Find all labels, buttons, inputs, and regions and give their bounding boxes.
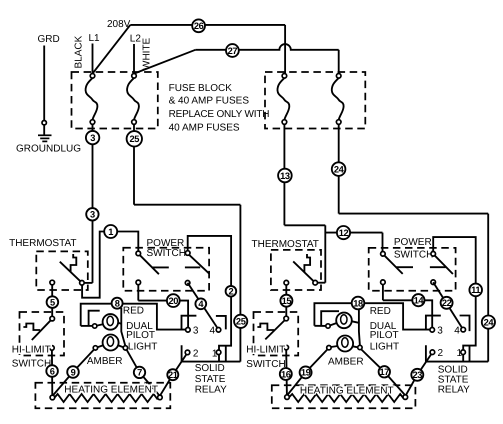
svg-text:8: 8 bbox=[115, 299, 120, 309]
svg-text:12: 12 bbox=[339, 228, 349, 238]
svg-text:24: 24 bbox=[484, 317, 495, 327]
svg-text:6: 6 bbox=[50, 366, 55, 376]
node 27 bbox=[226, 44, 239, 57]
wire diagonal right amber to element via node 19 bbox=[287, 350, 327, 396]
svg-text:FUSE BLOCK: FUSE BLOCK bbox=[169, 83, 233, 94]
pilot lamp AMBER left bbox=[103, 335, 119, 351]
svg-text:16: 16 bbox=[281, 369, 291, 379]
relay left terminal 2 bbox=[185, 350, 190, 355]
wire second feed horizontal with hop over vertical bbox=[195, 44, 338, 50]
thermostat left (dashed box) bbox=[36, 251, 88, 290]
svg-text:SOLID: SOLID bbox=[195, 363, 225, 374]
wire right pole1 bottom drop bbox=[382, 284, 384, 300]
svg-text:PILOT: PILOT bbox=[126, 330, 155, 341]
node 17 bbox=[379, 366, 390, 377]
wire to right thermostat right terminal bbox=[317, 282, 326, 284]
wire 24 horizontal bbox=[339, 213, 489, 215]
wire down to right thermostat bbox=[324, 225, 326, 282]
node 4 bbox=[195, 298, 206, 309]
svg-text:2: 2 bbox=[438, 348, 444, 359]
wire to thermostat right terminal bbox=[84, 282, 93, 284]
wire lamp right riser left bbox=[121, 308, 125, 346]
svg-text:1: 1 bbox=[108, 227, 113, 237]
heating element left zigzag bbox=[55, 394, 158, 402]
svg-text:POWER: POWER bbox=[394, 237, 432, 248]
wire node 12 horizontal bbox=[325, 232, 382, 234]
svg-text:HI-LIMIT: HI-LIMIT bbox=[246, 344, 285, 355]
node 24 upper bbox=[332, 162, 346, 176]
node 1 bbox=[104, 225, 117, 238]
wire node 1 loop from thermostat terminal bbox=[82, 232, 138, 298]
svg-text:REPLACE ONLY WITH: REPLACE ONLY WITH bbox=[169, 109, 270, 120]
fuse F3 bbox=[277, 78, 289, 120]
node 3 upper bbox=[86, 131, 99, 144]
svg-text:25: 25 bbox=[130, 134, 140, 144]
ground symbol bbox=[38, 135, 52, 141]
node 26 bbox=[192, 19, 205, 32]
pilot lamp RED right bbox=[336, 313, 352, 329]
wire L2 diagonal bbox=[134, 50, 195, 74]
wire pole1 bottom drop bbox=[137, 285, 139, 301]
wire 25 to relay bottom bbox=[182, 361, 241, 363]
wire node 11 run from right pole2 top bbox=[433, 237, 476, 350]
svg-text:LIGHT: LIGHT bbox=[128, 342, 157, 353]
fuse block left (dashed box) bbox=[72, 72, 158, 129]
svg-text:1: 1 bbox=[457, 348, 463, 359]
wire right relay2 diagonal to element via node 23 bbox=[406, 355, 432, 396]
relay right terminal 3 bbox=[430, 328, 435, 333]
svg-text:HEATING ELEMENT: HEATING ELEMENT bbox=[64, 384, 158, 395]
node 2 bbox=[226, 286, 237, 297]
svg-text:9: 9 bbox=[71, 367, 76, 377]
svg-text:WHITE: WHITE bbox=[142, 37, 153, 70]
wire node 8 horizontal with corners bbox=[81, 304, 186, 330]
svg-text:23: 23 bbox=[413, 370, 423, 380]
svg-text:SWITCH: SWITCH bbox=[246, 359, 285, 370]
node 24 lower bbox=[482, 316, 495, 329]
svg-text:AMBER: AMBER bbox=[328, 357, 364, 368]
thermostat right switch bbox=[293, 261, 315, 282]
node 12 bbox=[337, 226, 350, 239]
node 7 bbox=[134, 367, 145, 378]
wire hi-limit to element via node 6 bbox=[51, 350, 53, 395]
fuse F1 bbox=[86, 78, 98, 120]
svg-text:27: 27 bbox=[228, 46, 238, 56]
svg-text:RED: RED bbox=[370, 306, 391, 317]
svg-text:18: 18 bbox=[353, 298, 363, 308]
wire fuse F1 to node 3 run bbox=[92, 124, 94, 283]
wire lug to ground bbox=[43, 125, 45, 135]
node 22 bbox=[441, 297, 453, 309]
wire top feed down to right fuse bbox=[284, 25, 286, 74]
svg-text:SWITCH: SWITCH bbox=[394, 250, 433, 261]
power switch right pole 2 bbox=[434, 255, 453, 274]
relay left terminal 1 bbox=[218, 355, 220, 362]
power switch left (dashed box) bbox=[123, 248, 209, 291]
svg-text:SWITCH: SWITCH bbox=[12, 359, 51, 370]
power switch left pole 1 bbox=[140, 255, 159, 274]
svg-text:L2: L2 bbox=[130, 34, 142, 45]
wire pole2 bottom diagonal to relay terminal 4 bbox=[188, 283, 219, 330]
node 8 bbox=[112, 298, 123, 309]
node 19 bbox=[300, 366, 312, 378]
svg-text:5: 5 bbox=[50, 297, 55, 307]
svg-text:GRD: GRD bbox=[38, 34, 60, 45]
svg-text:3: 3 bbox=[193, 326, 199, 337]
node 15 bbox=[280, 295, 292, 307]
svg-text:22: 22 bbox=[442, 298, 452, 308]
wire 13 horizontal bbox=[284, 224, 325, 226]
fuse block right (dashed box) bbox=[265, 72, 365, 129]
wire GRD drop bbox=[43, 46, 45, 121]
relay left terminal 3 bbox=[186, 328, 191, 333]
svg-text:14: 14 bbox=[414, 296, 425, 306]
svg-text:11: 11 bbox=[471, 285, 480, 295]
svg-text:RED: RED bbox=[123, 305, 144, 316]
relay right outline brackets bbox=[426, 316, 470, 362]
hi-limit right blade bbox=[265, 320, 285, 339]
wire thermostat left terminal to node 5 bbox=[51, 285, 53, 317]
node 14 bbox=[412, 294, 424, 306]
hi-limit switch left (dashed box) bbox=[20, 312, 65, 356]
svg-text:24: 24 bbox=[334, 164, 345, 174]
fuse F4 bbox=[332, 78, 344, 120]
svg-text:SWITCH: SWITCH bbox=[147, 248, 186, 259]
wire node 18 horizontal with corners bbox=[314, 303, 430, 329]
svg-text:4: 4 bbox=[454, 325, 460, 336]
relay right terminal 2 bbox=[430, 350, 435, 355]
svg-text:HEATING ELEMENT: HEATING ELEMENT bbox=[300, 386, 394, 397]
svg-text:STATE: STATE bbox=[195, 374, 226, 385]
wire node 14 horizontal to right relay terminal 3 bbox=[383, 300, 432, 327]
svg-text:25: 25 bbox=[236, 317, 246, 327]
svg-text:THERMOSTAT: THERMOSTAT bbox=[252, 239, 319, 250]
wire right thermostat left terminal to node 15 bbox=[285, 285, 287, 316]
svg-text:7: 7 bbox=[137, 368, 142, 378]
node 13 bbox=[278, 169, 292, 183]
svg-text:GROUNDLUG: GROUNDLUG bbox=[16, 143, 81, 154]
wire 24 vertical drop bbox=[487, 214, 489, 362]
svg-text:4: 4 bbox=[210, 326, 216, 337]
power switch right pole 1 bbox=[384, 255, 403, 274]
svg-text:AMBER: AMBER bbox=[87, 356, 123, 367]
svg-text:17: 17 bbox=[380, 367, 390, 377]
pilot lamp RED left bbox=[103, 314, 119, 330]
power switch right (dashed box) bbox=[369, 248, 456, 291]
svg-text:3: 3 bbox=[90, 133, 95, 143]
wire L1 stub bbox=[92, 44, 94, 74]
svg-text:19: 19 bbox=[301, 368, 311, 378]
svg-text:RELAY: RELAY bbox=[438, 385, 470, 396]
svg-text:26: 26 bbox=[194, 21, 204, 31]
pilot lamp AMBER right bbox=[337, 336, 353, 352]
node 11 bbox=[469, 284, 482, 297]
svg-text:RELAY: RELAY bbox=[195, 385, 227, 396]
heating element left (dashed box) bbox=[35, 383, 170, 408]
terminal ground lug bbox=[42, 121, 46, 125]
node 5 bbox=[47, 296, 59, 308]
svg-text:13: 13 bbox=[280, 171, 290, 181]
node 3 lower bbox=[86, 208, 98, 220]
node 20 bbox=[167, 294, 180, 307]
wire right lamp feed stub bbox=[314, 325, 325, 327]
hi-limit left blade bbox=[32, 320, 51, 340]
svg-text:15: 15 bbox=[282, 296, 292, 306]
wire diagonal amber to element via node 9 bbox=[52, 350, 94, 396]
wire diagonal right lamp to element right via node 17 bbox=[361, 350, 405, 396]
wire node 20 horizontal to relay terminal 3 bbox=[138, 301, 188, 328]
svg-text:21: 21 bbox=[168, 370, 178, 380]
wire right hi-limit to element via node 16 bbox=[285, 350, 288, 395]
svg-text:LIGHT: LIGHT bbox=[370, 342, 399, 353]
wire pilot bracket right bbox=[321, 311, 339, 325]
thermostat left switch bbox=[60, 262, 82, 283]
wire 24 to relay bottom bbox=[426, 361, 488, 363]
wire 25 vertical drop bbox=[239, 205, 241, 362]
power switch left pole 2 bbox=[189, 255, 209, 274]
fuse F2 bbox=[127, 78, 139, 120]
relay left outline brackets bbox=[182, 316, 226, 362]
wire relay2 diagonal to element via node 21 bbox=[160, 355, 186, 396]
svg-text:20: 20 bbox=[169, 296, 179, 306]
svg-text:PILOT: PILOT bbox=[370, 330, 399, 341]
svg-text:HI-LIMIT: HI-LIMIT bbox=[12, 344, 51, 355]
relay left terminal 4 bbox=[216, 328, 221, 333]
svg-text:1: 1 bbox=[212, 348, 218, 359]
svg-text:THERMOSTAT: THERMOSTAT bbox=[9, 238, 76, 249]
wire 25 horizontal bbox=[134, 204, 240, 206]
thermostat right (dashed box) bbox=[271, 250, 321, 290]
relay right terminal 1 bbox=[462, 354, 464, 361]
wire fuse F3 to node 13 run bbox=[283, 124, 285, 225]
wire top feed horizontal bbox=[130, 24, 285, 26]
node 23 bbox=[411, 369, 423, 381]
svg-text:L1: L1 bbox=[89, 33, 101, 44]
wire L1 diagonal to 208V feed bbox=[93, 25, 131, 74]
svg-text:2: 2 bbox=[193, 348, 199, 359]
node 25 lower bbox=[234, 315, 247, 328]
heating element right (dashed box) bbox=[272, 385, 416, 408]
relay right terminal 4 bbox=[461, 327, 466, 332]
wire node 2 run from pole2 top bbox=[188, 236, 231, 350]
svg-text:3: 3 bbox=[437, 326, 443, 337]
wire lamp right riser right bbox=[359, 309, 360, 346]
wire 12 down to right power switch pole1 bbox=[382, 233, 384, 252]
wire pilot bracket left bbox=[89, 311, 100, 325]
wire second feed down to right fuse bbox=[338, 50, 340, 74]
wire diagonal lamp to element right via node 7 bbox=[127, 350, 160, 396]
wire right pole2 bottom diagonal to relay terminal 4 bbox=[433, 282, 463, 329]
node 9 bbox=[67, 366, 79, 378]
node 6 bbox=[46, 365, 58, 377]
node 16 bbox=[280, 368, 292, 380]
svg-text:40 AMP FUSES: 40 AMP FUSES bbox=[169, 123, 240, 134]
wire fuse F4 to node 24 run bbox=[338, 124, 340, 213]
hi-limit switch right (dashed box) bbox=[254, 312, 299, 356]
wire fuse F2 to node 25 run bbox=[133, 124, 135, 205]
svg-text:3: 3 bbox=[90, 210, 95, 220]
heating element right zigzag bbox=[289, 394, 403, 402]
node 18 bbox=[352, 297, 365, 310]
node 25 upper bbox=[127, 131, 142, 146]
wire lamp feed stub bbox=[81, 325, 93, 327]
svg-text:2: 2 bbox=[229, 287, 234, 297]
wire L2 stub bbox=[133, 44, 135, 73]
svg-text:& 40 AMP FUSES: & 40 AMP FUSES bbox=[169, 96, 250, 107]
node 21 bbox=[167, 369, 178, 380]
svg-text:BLACK: BLACK bbox=[74, 35, 85, 68]
